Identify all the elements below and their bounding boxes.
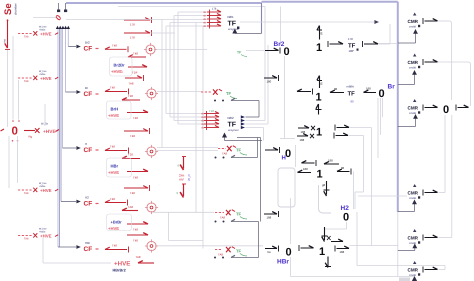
wire circle3 right a — [157, 147, 218, 149]
bond CF3-R3 (red) — [105, 145, 129, 154]
wire loop right of H — [319, 185, 332, 213]
svg-text:CMR: CMR — [408, 60, 419, 65]
wire CMR2 loop — [438, 62, 471, 106]
modulated resistor CMR2 — [408, 54, 421, 70]
bond into 0 HBr — [265, 246, 279, 254]
svg-text:TF: TF — [236, 212, 242, 217]
signal wire into CMR4 — [398, 200, 417, 212]
wire right bus vertical (lavender) — [397, 2, 399, 212]
wire inner loop bottom — [169, 212, 204, 240]
junction 1 HBr — [319, 246, 325, 258]
wire cage h TF2 r3 — [174, 120, 204, 122]
capacitive field CF4 — [84, 196, 99, 208]
bond 1mid right b — [334, 133, 348, 139]
bond 1 H right upper — [324, 159, 339, 165]
svg-text:CF: CF — [84, 246, 93, 253]
signal dots cluster 3 — [215, 157, 225, 159]
wire left cage d — [8, 136, 10, 188]
wire bottom left corner — [42, 238, 44, 263]
svg-text:TF: TF — [226, 91, 232, 96]
svg-text:TA8: TA8 — [218, 253, 223, 257]
svg-text:m88A: m88A — [347, 85, 354, 89]
wire below 0 Br — [382, 98, 384, 117]
bond 1 Br2 to TF — [328, 41, 343, 47]
bond R4 c (red) — [127, 233, 148, 243]
svg-text:TA8: TA8 — [129, 82, 134, 86]
svg-text:TF: TF — [236, 249, 242, 254]
bond R4 b (red) — [127, 222, 148, 232]
svg-text:T48: T48 — [112, 243, 117, 247]
transformer TF2 label — [227, 116, 239, 132]
svg-text:T48: T48 — [130, 191, 135, 195]
wire to bond 0 Br2 — [246, 50, 264, 52]
label H2 — [341, 205, 350, 212]
wire cage h TF2 r1 — [166, 113, 204, 115]
bond 0 HBr to 1 — [299, 245, 314, 251]
svg-text:+HVE: +HVE — [108, 113, 119, 118]
svg-text:TDF: TDF — [132, 71, 138, 75]
wire right faint a — [377, 98, 379, 158]
wire cage v7 — [202, 26, 204, 249]
transformer TF Br — [347, 85, 356, 104]
signal wire into CMR5 — [398, 244, 417, 251]
reaction flow cluster 2 — [201, 89, 237, 98]
svg-text:chamber: chamber — [14, 3, 18, 15]
bond CMR1 output — [423, 18, 438, 24]
svg-text:TA8: TA8 — [222, 152, 227, 156]
wire 0right down a — [439, 115, 446, 193]
svg-text:Br: Br — [388, 84, 396, 91]
svg-text:0: 0 — [286, 247, 292, 259]
wire CMR6 loop — [357, 212, 445, 270]
bond 1 HBr up-right — [327, 236, 343, 242]
wire cluster3 upper loop — [237, 138, 261, 222]
svg-text:+MSe: +MSe — [39, 73, 46, 76]
wire bus to CF2 with arrow — [66, 90, 81, 94]
species bus wire vertical 1 — [57, 29, 59, 247]
svg-text:g8: g8 — [322, 183, 326, 187]
svg-text:Br: Br — [85, 86, 88, 90]
wire cluster3 loop — [231, 138, 258, 158]
wire cage v5 — [177, 12, 179, 124]
capacitive field CF1 — [84, 41, 99, 53]
wire mid vertical — [280, 7, 282, 46]
svg-text:TA8: TA8 — [220, 216, 225, 220]
species bus wire 3 arrowhead — [61, 26, 64, 29]
bond vertical into 1 HBr — [322, 227, 328, 242]
bond red0 to +HVE source — [1, 123, 60, 139]
svg-text:180: 180 — [267, 80, 272, 84]
svg-text:Rg: Rg — [29, 135, 33, 139]
reaction element R1 (circle) — [144, 43, 157, 56]
modulated resistor CMR4 — [408, 184, 421, 200]
modulated resistor CMR6 — [408, 261, 421, 277]
wire below 0 Br2 — [284, 56, 286, 139]
svg-text:T48: T48 — [133, 239, 138, 243]
wire below 0 H2 — [325, 222, 347, 229]
svg-text:+HVE: +HVE — [108, 226, 119, 231]
reaction element R2 (circle) — [145, 87, 158, 100]
svg-text:188: 188 — [328, 159, 333, 163]
svg-text:T48: T48 — [133, 116, 138, 120]
wire stub left of red 0 glyph — [33, 17, 56, 19]
svg-text:+HVE: +HVE — [40, 76, 52, 81]
svg-text:CMR: CMR — [408, 106, 419, 111]
svg-text:+BrBr: +BrBr — [111, 220, 123, 225]
capacitive field CF5 — [84, 241, 99, 253]
junction 0 H — [285, 148, 291, 160]
wire 1mid right b — [349, 136, 364, 210]
bond 1mid left b — [297, 134, 314, 142]
svg-text:T28: T28 — [128, 94, 133, 98]
label H — [282, 155, 286, 162]
svg-text:188: 188 — [340, 250, 345, 254]
svg-text:HBr: HBr — [111, 164, 119, 169]
label between vertical bonds — [179, 174, 191, 182]
svg-text:Br2: Br2 — [85, 41, 90, 45]
signal arrow into TF2 bottom — [222, 133, 262, 141]
label HBr — [277, 259, 289, 266]
bond R3 b (red) — [127, 169, 148, 179]
svg-text:88: 88 — [341, 166, 345, 170]
transformer TF1 bond stack — [203, 8, 221, 29]
wire 1H right down — [353, 172, 355, 210]
reaction flow cluster 4 — [215, 210, 247, 220]
svg-text:T28: T28 — [128, 153, 133, 157]
svg-text:m8t2: m8t2 — [227, 116, 234, 120]
source +HVE bottom — [113, 261, 131, 273]
junction 1 mid — [316, 127, 322, 139]
svg-text:+MSe: +MSe — [39, 231, 46, 234]
wire cage h TF2 r2 — [170, 116, 204, 118]
wire top bus segment B (lavender) — [262, 1, 398, 3]
wire circle3 right b — [157, 150, 218, 152]
wire faint to CMR4 row — [358, 195, 407, 197]
svg-text:cmr88: cmr88 — [409, 242, 417, 245]
svg-text:T48: T48 — [110, 197, 115, 201]
tiny red marks below 0 — [12, 140, 19, 142]
svg-text:W_m: W_m — [187, 174, 191, 182]
svg-text:+HVE: +HVE — [40, 234, 52, 239]
bond 1mid right a — [335, 125, 349, 131]
svg-text:80: 80 — [351, 100, 355, 104]
label TF1 green tail — [237, 51, 247, 57]
bond Se to 0-junction (red vertical) — [5, 19, 10, 49]
source MSe +HVE cluster 2 — [18, 70, 58, 83]
svg-text:ms: ms — [267, 250, 271, 254]
junction 1 Br2 — [316, 42, 322, 54]
bond vertical above 1 Br — [317, 76, 323, 89]
wire 0right down b — [439, 115, 452, 238]
annotation box reaction 3 — [107, 158, 132, 177]
bond vertical below 1 HBr — [325, 257, 331, 268]
svg-text:cmr88: cmr88 — [409, 274, 417, 277]
svg-text:TA8: TA8 — [24, 192, 29, 195]
bond R1 b (red) — [128, 65, 147, 75]
bond 1 H right lower — [337, 166, 351, 175]
bond 1H to 0H upper — [302, 160, 317, 166]
svg-text:H: H — [85, 142, 87, 146]
wire TF Br2 out right — [379, 43, 391, 45]
bond CF2-R2 (red) — [105, 86, 129, 95]
Se parameter text (navy, rotated) — [14, 3, 18, 15]
wire cage h TF1 r1 — [178, 11, 207, 13]
wire TF2 port3 — [246, 45, 269, 124]
wire R1 mid right — [151, 32, 175, 34]
svg-text:T48: T48 — [133, 176, 138, 180]
wire bus to CF3 with arrow — [63, 146, 81, 150]
signal plug stub 2 — [64, 3, 67, 12]
wire long to TF1 — [66, 19, 207, 21]
bond vertical between 1Br and 1mid — [316, 104, 322, 115]
modulated resistor CMR1 — [408, 13, 421, 29]
capacitive field CF3 — [84, 142, 99, 154]
svg-text:H2: H2 — [85, 196, 89, 200]
svg-text:CF: CF — [84, 46, 93, 53]
svg-text:TA8: TA8 — [24, 80, 29, 83]
signal wire into CMR2 — [398, 70, 417, 85]
signal dots cluster 5 — [214, 257, 224, 259]
svg-text:1: 1 — [316, 127, 322, 139]
source MSe +HVE cluster 4 — [18, 228, 58, 241]
svg-text:T48: T48 — [110, 86, 115, 90]
label Br — [388, 84, 396, 91]
species bus wire 2 arrowhead — [59, 26, 62, 29]
svg-text:178: 178 — [130, 23, 135, 27]
bond TF-field upper (red vertical) — [178, 157, 187, 171]
annotation box reaction 1 — [110, 57, 133, 76]
svg-text:TA8: TA8 — [128, 205, 133, 209]
signal plug stub 1 — [57, 3, 60, 12]
svg-text:0: 0 — [343, 212, 349, 224]
reaction element R5 (circle) — [145, 239, 158, 252]
svg-text:CF: CF — [84, 147, 93, 154]
bond R2 b (red) — [127, 110, 148, 120]
wire cluster2 loop — [231, 98, 259, 100]
svg-text:HBr: HBr — [277, 259, 289, 266]
bond into 1 Br — [297, 89, 313, 95]
bond 1H to 0H lower — [298, 167, 312, 173]
svg-text:188: 188 — [366, 87, 371, 91]
svg-text:CF: CF — [84, 91, 93, 98]
bond 0 right output — [456, 105, 469, 111]
bond R2 up (red) — [125, 75, 144, 86]
wire cage v4 — [173, 16, 175, 121]
bond into 0 H — [265, 147, 280, 153]
bond into 0 Br2 — [265, 48, 280, 54]
bond R1 mid (red) — [124, 30, 152, 40]
svg-text:T48: T48 — [130, 134, 135, 138]
svg-text:180*: 180* — [349, 49, 356, 53]
bond R5 +HVE (red) — [136, 255, 155, 263]
capacitive field CF2 — [84, 86, 99, 98]
wire circle1 right — [156, 49, 207, 51]
wire cage v3 — [169, 23, 171, 118]
wire cage h TF1 r4 — [170, 22, 207, 24]
wire TF2 port4 — [246, 128, 264, 141]
source MSe +HVE cluster 1 — [18, 26, 58, 39]
svg-text:0: 0 — [285, 148, 291, 160]
svg-text:CMR: CMR — [408, 268, 419, 273]
transformer TF2 bond stack — [201, 109, 219, 130]
svg-text:E: E — [321, 32, 323, 36]
bond CF4-R4 (red) — [105, 197, 128, 206]
svg-text:CMR: CMR — [408, 236, 419, 241]
wire right of 0 H — [295, 145, 297, 167]
bond into 0 Br — [0, 0, 1, 1]
wire bus to CF1 with arrow — [68, 45, 81, 49]
svg-text:T48: T48 — [133, 52, 138, 56]
wire TF1 output down — [379, 24, 398, 44]
svg-text:+HVE: +HVE — [40, 188, 52, 193]
svg-text:HBrBr2: HBrBr2 — [113, 269, 126, 273]
svg-text:1: 1 — [316, 42, 322, 54]
wire cluster5 loop — [231, 255, 259, 257]
svg-text:88: 88 — [334, 87, 338, 91]
bond left of 0 H2 — [264, 211, 279, 220]
bond CF1-R1 (red) — [105, 44, 128, 53]
bond CMR2 output — [423, 59, 438, 65]
svg-text:E: E — [321, 82, 323, 86]
svg-text:0: 0 — [12, 126, 18, 138]
svg-text:TA8: TA8 — [136, 255, 141, 259]
source MSe +HVE cluster 3 — [18, 182, 58, 195]
species bus wire vertical 2 — [59, 29, 61, 247]
bond TF Br2 out — [363, 41, 379, 47]
tiny red marks above 0 — [12, 120, 20, 122]
wire cage v2 — [165, 26, 167, 114]
reaction flow cluster 5 — [215, 247, 247, 257]
source Se label (red, rotated) — [3, 3, 14, 15]
reaction element R3 (circle) — [145, 145, 158, 158]
bond R3 up (red) — [124, 128, 150, 138]
svg-text:TF: TF — [348, 91, 356, 98]
label Br2 — [274, 41, 285, 48]
junction 0 (red, main left) — [12, 126, 18, 138]
wire circle4 right — [153, 211, 214, 213]
wire loop H region — [278, 168, 295, 207]
signal wire into CMR6 — [399, 276, 417, 281]
wire TF1 output right — [240, 20, 379, 24]
svg-text:T48: T48 — [110, 145, 115, 149]
junction 1 H — [317, 169, 323, 181]
svg-text:Br2Br: Br2Br — [114, 63, 126, 68]
svg-text:CF: CF — [84, 201, 93, 208]
svg-text:188: 188 — [267, 216, 272, 220]
svg-text:178: 178 — [212, 8, 217, 11]
svg-text:H: H — [282, 155, 286, 162]
species bus wire vertical 4 — [62, 29, 64, 148]
species bus wire vertical 3 — [60, 29, 62, 202]
bond vertical above 1 Br2 — [317, 26, 323, 40]
wire right bus thin continuation — [397, 212, 399, 277]
wire bottom left long — [43, 262, 111, 264]
bond CMR5 output — [423, 235, 438, 241]
wire cage v6 — [195, 23, 197, 213]
svg-text:T48: T48 — [133, 228, 138, 232]
bond R1 top (red) — [124, 17, 152, 27]
wire bus to CF4 with arrow — [61, 200, 81, 204]
signal dots cluster 4 — [215, 221, 225, 223]
reaction element R4 (circle) — [145, 201, 158, 214]
junction 0 Br — [379, 88, 385, 100]
bond TF-field lower (red vertical) — [177, 184, 187, 198]
svg-text:BrH: BrH — [111, 107, 119, 112]
reaction flow cluster 3 — [218, 146, 247, 156]
svg-text:enzyme2: enzyme2 — [228, 129, 239, 132]
wire left cage e — [17, 136, 19, 183]
svg-text:Se: Se — [3, 3, 14, 15]
wire CMR1 to 0 right — [438, 21, 452, 100]
bond CF5-R5 (red) — [105, 243, 129, 252]
bond label ms (rotated tiny) — [3, 39, 7, 43]
signal wire into CMR3 — [398, 114, 418, 127]
bond TF Br out — [364, 87, 377, 93]
signal wire into CMR1 — [398, 29, 418, 43]
junction 0 right — [443, 104, 449, 116]
svg-text:+MSe: +MSe — [39, 185, 46, 188]
bond R3 a (red) — [122, 153, 140, 159]
bond R1 a (red) — [128, 52, 146, 58]
svg-text:CMR: CMR — [408, 191, 419, 196]
bond CMR3 output — [423, 105, 438, 111]
bond vertical below 1 H — [322, 181, 330, 196]
junction 0 (red, rotated) at bus top — [53, 13, 63, 22]
wire cage h TF1 r2 — [174, 15, 207, 17]
wire cluster4 loop — [231, 219, 259, 257]
bond CMR6 output — [423, 267, 438, 273]
svg-text:TA8: TA8 — [24, 36, 29, 39]
wire left cage c — [44, 104, 46, 126]
wire left cage b — [18, 80, 20, 120]
modulated resistor CMR5 — [408, 229, 421, 245]
bond R2 a (red) — [122, 94, 140, 100]
svg-text:ms: ms — [3, 39, 7, 43]
svg-text:TF: TF — [228, 21, 237, 28]
svg-text:178: 178 — [348, 37, 353, 41]
wire mid down to 0 HBr — [290, 198, 292, 244]
wire Se bond to red 0 — [7, 50, 9, 127]
svg-text:+HVE: +HVE — [43, 129, 56, 135]
transformer TF1 label — [227, 15, 239, 31]
svg-text:cmr88: cmr88 — [409, 197, 417, 200]
wire top secondary line — [118, 6, 265, 8]
svg-text:+HVE: +HVE — [108, 170, 119, 175]
species bus wire vertical 5 — [65, 29, 67, 92]
wire 1mid right a — [350, 128, 372, 246]
junction 0 H2 — [343, 212, 349, 224]
species bus wire 1 arrowhead — [56, 26, 59, 29]
wire left cage a — [12, 36, 14, 120]
junction 0 Br2 — [284, 46, 290, 58]
modulated resistor CMR3 — [408, 99, 421, 115]
wire TF2 port1 — [246, 101, 260, 118]
wire circle2 right — [157, 91, 201, 93]
wire 1 HBr right — [350, 245, 398, 247]
signal dots cluster 2 — [214, 100, 224, 102]
bond 1 HBr right — [335, 246, 349, 254]
svg-text:TF: TF — [228, 122, 237, 129]
svg-text:TF: TF — [236, 148, 242, 153]
svg-text:1: 1 — [317, 169, 323, 181]
svg-text:188: 188 — [303, 167, 308, 171]
svg-text:188: 188 — [301, 130, 306, 134]
svg-text:+HVE: +HVE — [40, 32, 52, 37]
annotation box reaction 4 — [107, 214, 132, 231]
wire 1mid left stub — [280, 138, 295, 140]
wire TF2 port2 — [246, 7, 266, 121]
species bus wire 5 arrowhead — [67, 26, 70, 29]
